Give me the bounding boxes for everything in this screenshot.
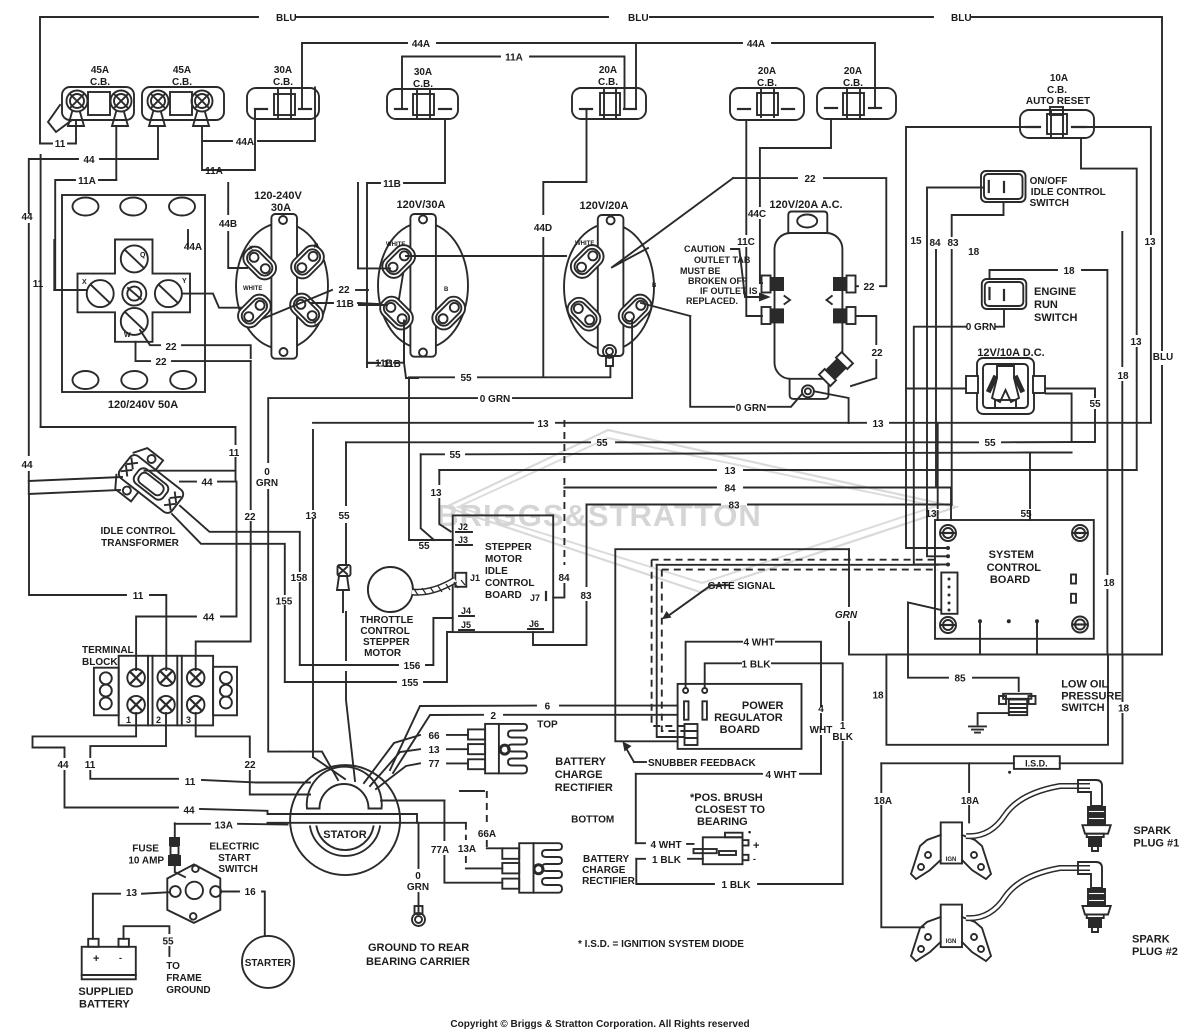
circuit breaker 30A CB1 <box>247 65 319 119</box>
circuit breaker 30A CB2 <box>387 67 458 119</box>
svg-text:84: 84 <box>724 484 736 495</box>
svg-text:+: + <box>753 840 759 852</box>
svg-text:B: B <box>652 283 657 289</box>
svg-text:44: 44 <box>57 760 69 771</box>
svg-text:83: 83 <box>580 591 592 602</box>
wire 22 terminal3 down to stator <box>196 713 310 795</box>
stator bottom horizontals <box>268 801 466 823</box>
svg-text:SUPPLIED: SUPPLIED <box>78 986 133 998</box>
svg-text:J3: J3 <box>458 535 468 545</box>
svg-text:0 GRN: 0 GRN <box>736 403 767 414</box>
box around regulator area <box>615 549 849 741</box>
wire 13 from 10A CB right terminal down <box>1081 138 1142 470</box>
svg-text:10A: 10A <box>1050 73 1068 84</box>
wire 4 WHT top <box>686 638 833 774</box>
svg-text:GRN: GRN <box>407 882 429 893</box>
svg-text:IF OUTLET IS: IF OUTLET IS <box>700 286 758 296</box>
svg-text:20A: 20A <box>844 66 862 77</box>
svg-text:2: 2 <box>491 711 497 722</box>
svg-text:120/240V 50A: 120/240V 50A <box>108 399 178 411</box>
svg-text:18: 18 <box>968 247 980 258</box>
svg-text:1 BLK: 1 BLK <box>652 855 682 866</box>
wire 155 to J5 <box>285 632 453 689</box>
svg-text:10 AMP: 10 AMP <box>128 856 164 867</box>
svg-text:IDLE CONTROL: IDLE CONTROL <box>101 526 176 537</box>
wire 44 from CB2 left <box>21 126 158 481</box>
svg-text:11B: 11B <box>336 299 354 310</box>
svg-text:* I.S.D. = IGNITION SYSTEM DIO: * I.S.D. = IGNITION SYSTEM DIODE <box>578 939 744 950</box>
wire 11 into 50A left screw <box>33 155 86 427</box>
svg-text:11: 11 <box>185 777 196 788</box>
svg-text:11A: 11A <box>505 53 523 64</box>
svg-text:11A: 11A <box>205 166 223 177</box>
terminal block <box>82 645 237 725</box>
wire 0 GRN engine run bottom <box>914 309 1004 565</box>
wire 66A dashed <box>460 791 502 848</box>
wire BLU right vertical <box>1153 21 1174 655</box>
svg-text:J5: J5 <box>461 620 471 630</box>
svg-text:13: 13 <box>305 511 317 522</box>
svg-text:0 GRN: 0 GRN <box>480 394 511 405</box>
wire 11 transformer loop <box>41 427 240 471</box>
wire 77A <box>431 801 502 883</box>
svg-text:11: 11 <box>133 591 144 602</box>
wire 44 into transformer <box>29 471 236 494</box>
svg-text:CHARGE: CHARGE <box>582 865 626 876</box>
svg-text:66: 66 <box>428 731 440 742</box>
svg-text:LOW OIL: LOW OIL <box>1061 678 1108 690</box>
svg-text:Y: Y <box>313 321 317 327</box>
board system control <box>935 520 1094 639</box>
wire 15 from 10A CB left to system board <box>906 127 1026 548</box>
wire 22 from 50A bottom screw <box>136 330 251 368</box>
svg-text:AUTO RESET: AUTO RESET <box>1026 96 1090 107</box>
wire 6 and 2 rows <box>390 702 678 773</box>
svg-text:155: 155 <box>276 597 293 608</box>
wire 11 terminal2 down to stator <box>85 713 310 788</box>
svg-text:4 WHT: 4 WHT <box>765 770 796 781</box>
switch engine run <box>982 279 1078 324</box>
svg-text:C.B.: C.B. <box>1047 85 1067 96</box>
svg-text:PRESSURE: PRESSURE <box>1061 690 1122 702</box>
svg-text:OUTLET TAB: OUTLET TAB <box>694 255 751 265</box>
svg-text:13: 13 <box>925 509 937 520</box>
svg-text:45A: 45A <box>91 65 109 76</box>
svg-text:1: 1 <box>840 721 846 732</box>
svg-text:BLU: BLU <box>951 13 972 24</box>
wire 22 from 50A right screw <box>182 294 247 308</box>
circuit breaker 20A CB2 <box>730 66 804 120</box>
svg-text:W: W <box>124 332 131 339</box>
svg-text:•: • <box>748 827 751 837</box>
wire 11 44 down left to terminal block <box>29 482 237 670</box>
svg-text:22: 22 <box>155 357 167 368</box>
svg-text:WHITE: WHITE <box>243 286 262 292</box>
svg-text:120V/30A: 120V/30A <box>397 199 446 211</box>
svg-text:11: 11 <box>229 448 240 459</box>
svg-text:BATTERY: BATTERY <box>79 999 130 1011</box>
wire from ON/OFF switch left <box>927 188 984 557</box>
svg-text:3: 3 <box>186 715 191 725</box>
wire 55 to frame ground <box>124 926 211 996</box>
circuit breaker 45A CB2 <box>142 65 224 126</box>
svg-text:0 GRN: 0 GRN <box>966 322 997 333</box>
svg-text:4: 4 <box>818 704 824 715</box>
svg-text:ELECTRIC: ELECTRIC <box>209 842 259 853</box>
rectifier battery charge top <box>428 719 612 794</box>
transformer idle control <box>101 443 194 549</box>
svg-text:BOARD: BOARD <box>720 724 760 736</box>
outlet 120-240V 30A <box>234 190 328 359</box>
svg-text:85: 85 <box>954 674 966 685</box>
wire 44C 11C into AC outlet <box>737 119 831 316</box>
svg-text:MOTOR: MOTOR <box>485 554 523 565</box>
svg-text:18A: 18A <box>961 796 979 807</box>
gate signal label arrow <box>662 581 775 619</box>
wire 4 WHT to brush <box>636 840 694 851</box>
svg-text:SYSTEM: SYSTEM <box>989 549 1034 561</box>
svg-text:120-240V: 120-240V <box>254 190 302 202</box>
svg-text:55: 55 <box>460 373 472 384</box>
motor starter <box>242 936 294 988</box>
wire 13 bus row D to J2 <box>430 466 1136 532</box>
svg-text:13: 13 <box>872 419 884 430</box>
svg-text:PLUG #1: PLUG #1 <box>1133 838 1179 850</box>
wire 44A from CB2 right to 30A CB1 <box>184 88 315 254</box>
wire 0 GRN from AC outlet <box>641 303 849 423</box>
svg-text:TERMINAL: TERMINAL <box>82 645 134 656</box>
wire 44B to outlet1 <box>219 183 247 268</box>
caution text block <box>680 244 758 306</box>
svg-text:18: 18 <box>1118 703 1130 714</box>
wire 22 diag from outlet3 to AC outlet <box>612 174 886 293</box>
svg-text:18: 18 <box>872 690 884 701</box>
svg-text:22: 22 <box>244 760 256 771</box>
svg-text:83: 83 <box>947 238 959 249</box>
svg-text:I.S.D.: I.S.D. <box>1025 758 1048 768</box>
svg-text:0: 0 <box>415 871 421 882</box>
svg-text:CONTROL: CONTROL <box>485 578 534 589</box>
svg-text:55: 55 <box>984 438 996 449</box>
svg-text:13: 13 <box>537 419 549 430</box>
svg-text:18: 18 <box>1103 578 1115 589</box>
svg-text:11B: 11B <box>383 179 401 190</box>
svg-text:BATTERY: BATTERY <box>583 854 629 865</box>
wire 18 right vertical <box>1117 232 1129 655</box>
ignition coil 2 <box>911 905 991 961</box>
svg-text:11: 11 <box>85 760 96 771</box>
svg-text:11B: 11B <box>375 359 393 370</box>
svg-text:BLU: BLU <box>276 13 297 24</box>
svg-text:SPARK: SPARK <box>1132 934 1170 946</box>
svg-text:MOTOR: MOTOR <box>364 648 402 659</box>
wire 11 from CB1 left <box>40 120 76 150</box>
svg-text:13: 13 <box>1144 237 1156 248</box>
svg-text:55: 55 <box>596 438 608 449</box>
svg-text:55: 55 <box>1089 399 1101 410</box>
svg-text:66A: 66A <box>478 829 496 840</box>
brush block pos <box>690 792 766 864</box>
svg-text:RECTIFIER: RECTIFIER <box>582 876 636 887</box>
svg-text:2: 2 <box>156 715 161 725</box>
wire 83 bus row F <box>533 501 952 646</box>
svg-text:22: 22 <box>338 285 350 296</box>
svg-text:84: 84 <box>929 238 941 249</box>
board power regulator <box>678 684 802 749</box>
svg-text:44C: 44C <box>748 209 766 220</box>
svg-text:BOTTOM: BOTTOM <box>571 814 614 825</box>
svg-text:BLK: BLK <box>832 732 853 743</box>
wire 55 bus row B <box>338 438 1094 562</box>
svg-text:POWER: POWER <box>742 700 784 712</box>
svg-text:SNUBBER FEEDBACK: SNUBBER FEEDBACK <box>648 758 757 769</box>
svg-text:30A: 30A <box>271 202 291 214</box>
svg-text:REGULATOR: REGULATOR <box>714 712 783 724</box>
svg-text:13: 13 <box>1130 337 1142 348</box>
svg-text:120V/20A A.C.: 120V/20A A.C. <box>769 199 842 211</box>
wire 18 from engine run switch top <box>968 247 1115 655</box>
svg-text:START: START <box>218 853 251 864</box>
svg-text:20A: 20A <box>599 65 617 76</box>
svg-text:11C: 11C <box>737 237 755 248</box>
outlet 120V/30A <box>376 199 469 357</box>
svg-text:4 WHT: 4 WHT <box>650 840 681 851</box>
svg-text:STEPPER: STEPPER <box>485 542 532 553</box>
switch electric start hexagon <box>167 842 259 923</box>
wire 11A from CB1 right <box>55 126 116 289</box>
svg-text:Y: Y <box>182 278 187 285</box>
wire BLU top bus <box>40 13 1162 144</box>
svg-text:FUSE: FUSE <box>132 844 159 855</box>
svg-text:44D: 44D <box>534 223 552 234</box>
svg-text:55: 55 <box>1020 509 1032 520</box>
svg-text:STATOR: STATOR <box>323 829 366 841</box>
receptacle 12V/10A D.C. <box>966 347 1045 414</box>
wire 22 from AC outlet lower right <box>851 316 883 386</box>
svg-text:*POS. BRUSH: *POS. BRUSH <box>690 792 763 804</box>
svg-text:13: 13 <box>724 466 736 477</box>
svg-text:55: 55 <box>338 511 350 522</box>
svg-text:BEARING CARRIER: BEARING CARRIER <box>366 956 470 968</box>
svg-text:J7: J7 <box>530 593 540 603</box>
svg-text:11A: 11A <box>78 176 96 187</box>
wire 18A right <box>961 763 979 822</box>
wire 83 from ON/OFF switch bottom <box>947 202 1003 505</box>
svg-text:SPARK: SPARK <box>1133 825 1171 837</box>
svg-text:13: 13 <box>430 488 442 499</box>
diode ISD box <box>881 756 1122 774</box>
svg-text:44: 44 <box>203 613 215 624</box>
svg-text:+: + <box>93 953 99 965</box>
wire 85 to low oil switch <box>908 603 1019 692</box>
svg-text:CONTROL: CONTROL <box>360 626 409 637</box>
svg-text:BATTERY: BATTERY <box>555 756 606 768</box>
svg-text:6: 6 <box>545 702 551 713</box>
circuit breaker 20A CB3 <box>817 66 896 119</box>
svg-text:CLOSEST TO: CLOSEST TO <box>695 804 766 816</box>
svg-text:CHARGE: CHARGE <box>555 769 603 781</box>
wire 55 from 12V DC right <box>906 389 1101 442</box>
svg-text:STEPPER: STEPPER <box>363 637 410 648</box>
svg-text:-: - <box>119 953 122 963</box>
wire 55 bus row C to J3 <box>421 450 1072 540</box>
fuse 10 amp <box>128 823 181 866</box>
svg-text:GRN: GRN <box>256 478 278 489</box>
svg-text:44A: 44A <box>184 242 202 253</box>
svg-text:0: 0 <box>264 467 270 478</box>
svg-text:CONTROL: CONTROL <box>987 562 1042 574</box>
svg-text:TOP: TOP <box>537 719 558 730</box>
wire 13 from 10A CB right via top <box>1086 127 1156 423</box>
svg-text:ENGINE: ENGINE <box>1034 286 1076 298</box>
svg-text:22: 22 <box>863 282 875 293</box>
receptacle 120/240V 50A <box>62 195 205 411</box>
svg-text:4 WHT: 4 WHT <box>743 638 774 649</box>
svg-text:GRN: GRN <box>835 610 858 621</box>
circuit breaker 20A CB1 <box>572 65 646 119</box>
wire 0 GRN bus <box>256 320 632 752</box>
svg-text:TRANSFORMER: TRANSFORMER <box>101 538 180 549</box>
svg-text:BLU: BLU <box>628 13 649 24</box>
svg-text:22: 22 <box>165 342 177 353</box>
wire 11B between 30A CBs <box>367 119 445 370</box>
svg-text:WHITE: WHITE <box>386 242 405 248</box>
circuit breaker 45A CB1 <box>48 65 134 132</box>
svg-text:45A: 45A <box>173 65 191 76</box>
svg-text:X: X <box>249 246 253 252</box>
wire 22 outlet2 to outlet3 + 11B bottom <box>358 183 566 378</box>
svg-text:PLUG #2: PLUG #2 <box>1132 946 1178 958</box>
connector on 55 wire <box>337 562 351 612</box>
svg-text:IDLE: IDLE <box>485 566 508 577</box>
svg-text:IDLE CONTROL: IDLE CONTROL <box>1031 187 1106 198</box>
svg-text:11: 11 <box>33 279 44 290</box>
ground symbol low oil <box>969 713 1009 733</box>
svg-text:N: N <box>314 244 318 250</box>
wire 13 battery to switch <box>93 888 169 939</box>
svg-text:20A: 20A <box>758 66 776 77</box>
svg-text:77A: 77A <box>431 845 449 856</box>
svg-text:44A: 44A <box>412 39 430 50</box>
ignition coil 1 <box>911 822 991 879</box>
svg-text:13A: 13A <box>458 844 476 855</box>
switch low oil pressure <box>999 678 1122 715</box>
svg-text:Copyright © Briggs & Stratton: Copyright © Briggs & Stratton Corporatio… <box>450 1019 749 1030</box>
svg-text:SWITCH: SWITCH <box>1030 198 1069 209</box>
wire 13 bus row A <box>305 419 1150 757</box>
svg-text:X: X <box>82 279 87 286</box>
svg-text:77: 77 <box>428 759 440 770</box>
svg-text:11: 11 <box>55 139 66 150</box>
svg-text:J1: J1 <box>470 573 480 583</box>
battery supplied <box>78 939 135 1011</box>
rectifier battery charge bottom <box>502 814 635 892</box>
svg-text:22: 22 <box>244 512 256 523</box>
svg-text:55: 55 <box>162 936 174 947</box>
svg-text:158: 158 <box>291 573 308 584</box>
svg-text:13A: 13A <box>215 820 233 831</box>
svg-text:1 BLK: 1 BLK <box>742 659 772 670</box>
svg-text:RUN: RUN <box>1034 299 1058 311</box>
wire 22 and 11B from outlet1 to outlet2 <box>262 256 406 319</box>
svg-text:18: 18 <box>1063 266 1075 277</box>
svg-text:C.B.: C.B. <box>273 77 293 88</box>
svg-text:BLOCK: BLOCK <box>82 657 118 668</box>
wires board bottom dots <box>980 621 1037 627</box>
motor throttle control stepper <box>360 567 414 659</box>
wire 13A to fuse <box>175 820 288 877</box>
svg-text:44B: 44B <box>219 219 237 230</box>
svg-text:IGN: IGN <box>946 857 957 863</box>
svg-text:B: B <box>444 287 449 293</box>
svg-text:THROTTLE: THROTTLE <box>360 615 414 626</box>
svg-text:MUST BE: MUST BE <box>680 266 721 276</box>
svg-text:GROUND: GROUND <box>166 985 210 996</box>
spark plug 1 <box>966 780 1179 851</box>
wire 44 terminal1 down to stator <box>33 713 291 817</box>
svg-text:84: 84 <box>558 573 570 584</box>
svg-text:1: 1 <box>126 715 131 725</box>
stator <box>290 765 400 875</box>
svg-text:BOARD: BOARD <box>485 590 522 601</box>
switch ON/OFF idle control <box>981 171 1106 209</box>
svg-text:WHT: WHT <box>810 725 833 736</box>
svg-text:TO: TO <box>166 961 180 972</box>
wire coiled motor to J1 <box>412 580 465 595</box>
svg-text:C.B.: C.B. <box>598 77 618 88</box>
svg-text:J6: J6 <box>529 619 539 629</box>
wire 44D <box>534 109 587 376</box>
svg-text:13: 13 <box>126 888 138 899</box>
circuit breaker 10A CB auto reset <box>1020 73 1094 138</box>
svg-text:GROUND TO REAR: GROUND TO REAR <box>368 942 469 954</box>
svg-text:-: - <box>753 854 756 864</box>
svg-text:44: 44 <box>21 212 33 223</box>
svg-text:IGN: IGN <box>946 939 957 945</box>
svg-text:SWITCH: SWITCH <box>1061 702 1104 714</box>
svg-text:18A: 18A <box>874 796 892 807</box>
wire 84 vertical right <box>929 238 941 488</box>
wire 1 BLK top <box>705 659 854 884</box>
svg-text:1 BLK: 1 BLK <box>722 880 752 891</box>
svg-text:WHITE: WHITE <box>575 241 594 247</box>
outlet 120V/20A <box>563 200 657 366</box>
spark plug 2 <box>966 862 1178 958</box>
svg-text:13: 13 <box>428 745 440 756</box>
svg-text:BROKEN OFF: BROKEN OFF <box>688 276 748 286</box>
svg-text:BOARD: BOARD <box>990 574 1030 586</box>
watermark briggs-stratton diamond <box>436 430 956 592</box>
svg-text:44A: 44A <box>236 137 254 148</box>
svg-text:FRAME: FRAME <box>166 973 202 984</box>
gate signal dashed pair <box>652 560 938 737</box>
svg-text:BLU: BLU <box>1153 352 1174 363</box>
svg-text:BEARING: BEARING <box>697 816 748 828</box>
svg-text:44: 44 <box>201 478 213 489</box>
svg-text:155: 155 <box>402 678 419 689</box>
outlet 120V/20A A.C. duplex <box>762 199 856 399</box>
svg-text:30A: 30A <box>274 65 292 76</box>
svg-text:RECTIFIER: RECTIFIER <box>555 782 613 794</box>
wire 158 155 from transformer down <box>172 506 308 682</box>
svg-text:REPLACED.: REPLACED. <box>686 296 738 306</box>
wire 18A left <box>874 763 924 927</box>
svg-text:55: 55 <box>449 450 461 461</box>
wire 44A top bus <box>302 39 875 109</box>
wire 11A top bus <box>402 53 625 110</box>
wire 4 WHT bottom <box>636 770 821 843</box>
svg-text:CAUTION: CAUTION <box>684 244 725 254</box>
